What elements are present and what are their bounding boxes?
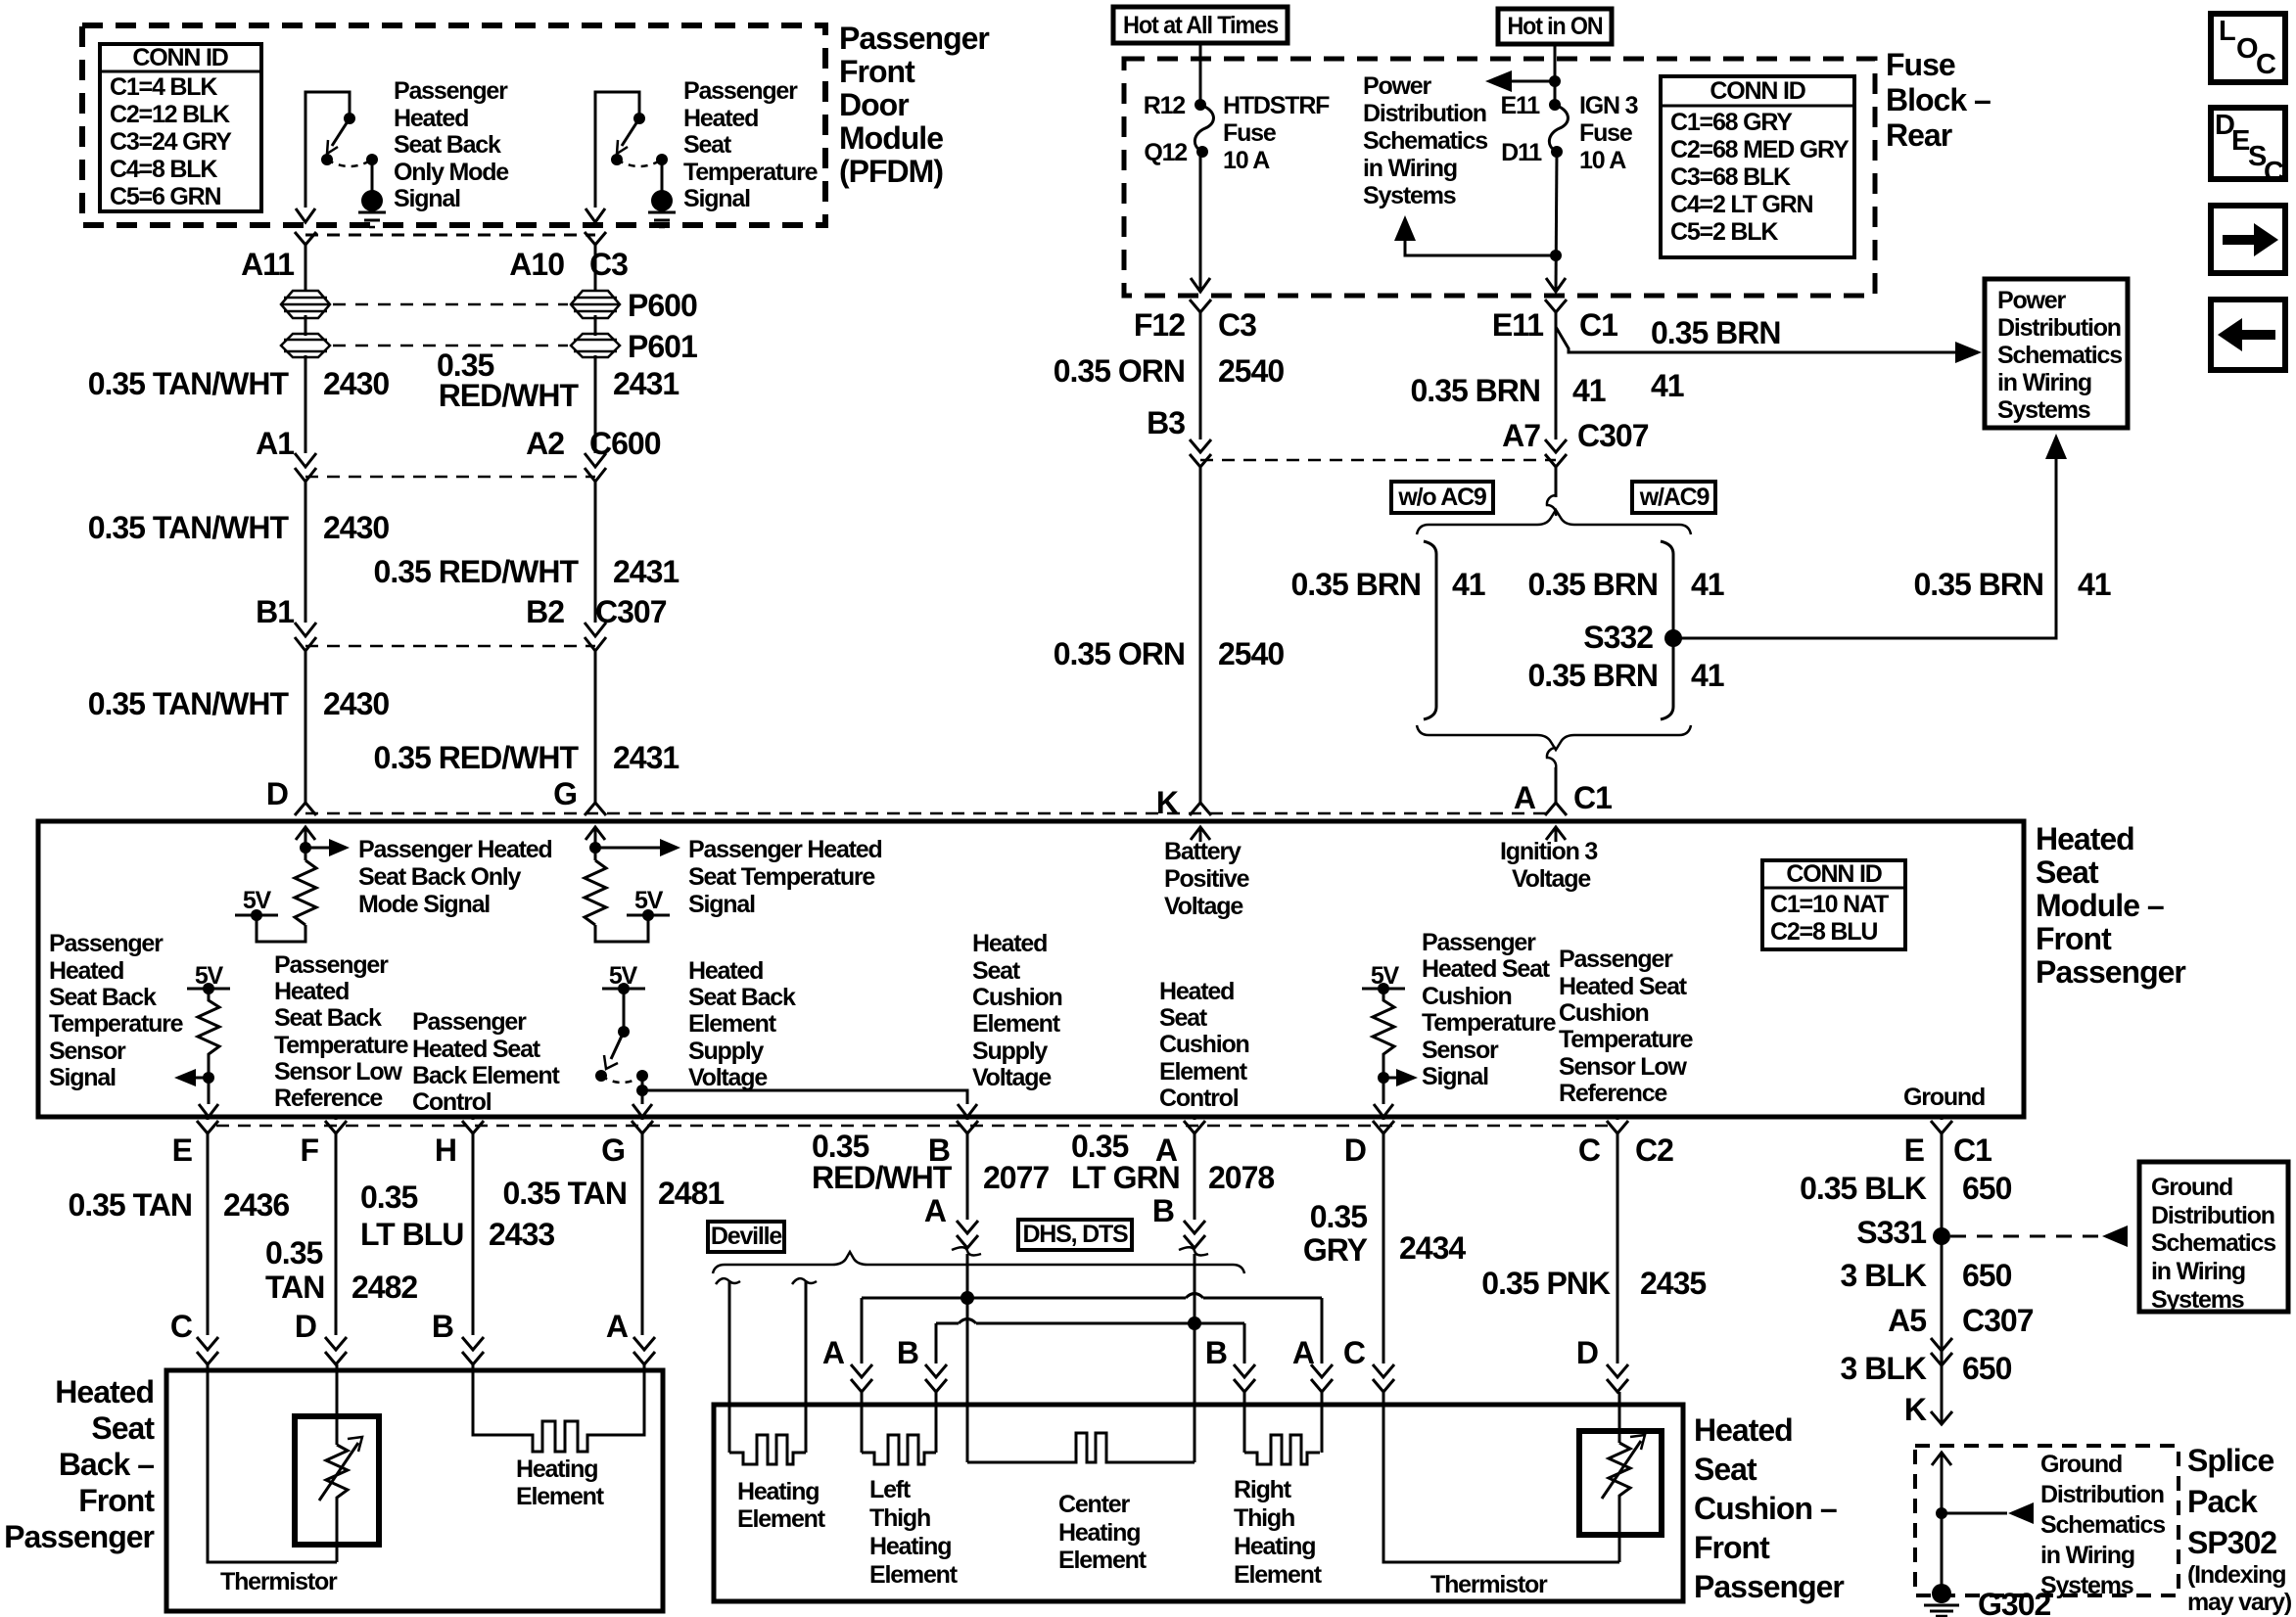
svg-text:IGN 3: IGN 3: [1579, 92, 1638, 119]
svg-text:Reference: Reference: [1559, 1080, 1667, 1107]
cushion sensor low ref text: [1559, 946, 1694, 1107]
svg-text:Heating: Heating: [1234, 1533, 1315, 1560]
Left Thigh Heating Element label: [869, 1476, 959, 1589]
svg-text:0.35: 0.35: [1310, 1199, 1367, 1234]
svg-text:A2: A2: [526, 426, 564, 461]
svg-text:0.35 TAN/WHT: 0.35 TAN/WHT: [88, 686, 290, 721]
seat back A chevrons: [633, 1337, 655, 1364]
Deville tag box: [708, 1222, 784, 1252]
svg-text:R12: R12: [1144, 92, 1186, 119]
svg-text:Temperature: Temperature: [1559, 1026, 1694, 1053]
module exit arrow pin G: [633, 1104, 652, 1117]
svg-text:5V: 5V: [634, 887, 664, 914]
svg-text:A: A: [924, 1193, 947, 1228]
ground ball G (SW2): [648, 190, 676, 227]
wire between P600 and P601: [305, 315, 307, 336]
svg-text:3 BLK: 3 BLK: [1841, 1258, 1927, 1293]
DHS DTS tag box: [1018, 1220, 1132, 1250]
svg-text:Signal: Signal: [683, 185, 750, 212]
seat back B chevrons: [462, 1337, 484, 1364]
splice junction dot: [1936, 1507, 1947, 1519]
cushion thermistor box: [1579, 1431, 1662, 1535]
connector C307 crossing (left wire): [295, 623, 316, 651]
wire 2431 seg2: [594, 482, 597, 623]
cushion sensor return wire (GRY): [1383, 1392, 1619, 1562]
svg-text:Fuse: Fuse: [1579, 119, 1633, 147]
ground G302: [1924, 1584, 1959, 1616]
Deville element wire 1 with curl: [716, 1278, 740, 1453]
svg-text:2482: 2482: [351, 1270, 417, 1305]
svg-text:Cushion: Cushion: [1559, 999, 1649, 1027]
svg-text:Passenger Heated: Passenger Heated: [688, 836, 882, 863]
svg-text:Rear: Rear: [1886, 117, 1952, 153]
svg-text:Heating: Heating: [1058, 1519, 1140, 1547]
svg-text:Heated: Heated: [394, 105, 468, 132]
svg-text:G: G: [601, 1132, 625, 1168]
svg-text:Control: Control: [1159, 1085, 1239, 1112]
svg-text:Systems: Systems: [1363, 182, 1456, 209]
cushion C chevrons (GRY wire): [1373, 1364, 1394, 1392]
svg-text:Front: Front: [78, 1483, 155, 1518]
wire 2431 seg1 lower: [594, 355, 597, 453]
svg-text:41: 41: [1691, 567, 1724, 602]
left thigh A chevrons: [851, 1364, 872, 1392]
pin G stub and Y: [632, 1117, 653, 1335]
w/AC9 tag box: [1632, 482, 1715, 513]
svg-text:0.35 BRN: 0.35 BRN: [1528, 567, 1659, 602]
svg-text:650: 650: [1962, 1258, 2012, 1293]
svg-text:Heated: Heated: [55, 1374, 154, 1409]
sensor low ref text (F): [274, 951, 409, 1112]
junction dot lower branch: [1550, 250, 1562, 261]
svg-text:2430: 2430: [323, 510, 389, 545]
Deville connector chevrons (wire 2077): [957, 1221, 978, 1248]
svg-text:C1=68 GRY: C1=68 GRY: [1670, 109, 1793, 136]
svg-text:Ground: Ground: [1903, 1084, 1985, 1111]
PFDM bottom connector dashed line: [305, 234, 595, 237]
branch wire to up arrow: [1405, 240, 1556, 255]
svg-text:Power: Power: [1997, 287, 2066, 314]
svg-text:0.35 BRN: 0.35 BRN: [1528, 658, 1659, 693]
wire from Hot in ON down: [1554, 44, 1557, 105]
branch line y1326: [862, 1297, 1322, 1300]
svg-text:B2: B2: [526, 594, 564, 629]
connector C600 crossing (left wire): [295, 453, 316, 482]
pin B stub and Y: [957, 1117, 978, 1220]
svg-text:Ground: Ground: [2040, 1451, 2122, 1478]
seat back thermistor box: [295, 1416, 379, 1545]
connector C307 crossing A7: [1545, 439, 1567, 467]
svg-text:Pack: Pack: [2187, 1484, 2258, 1519]
svg-text:Heated: Heated: [1159, 978, 1234, 1005]
supply switch SW3: [595, 983, 648, 1104]
svg-text:Element: Element: [972, 1010, 1061, 1038]
Right Thigh Heating Element label: [1234, 1476, 1323, 1589]
svg-text:Front: Front: [2036, 921, 2112, 956]
svg-text:C: C: [1343, 1335, 1366, 1370]
wire 2430 seg2: [305, 482, 307, 623]
svg-text:2540: 2540: [1218, 636, 1284, 671]
svg-text:Mode Signal: Mode Signal: [358, 891, 490, 918]
Heated Seat Cushion name label: [1694, 1412, 1844, 1604]
svg-text:E11: E11: [1500, 92, 1540, 119]
left thigh B chevrons: [925, 1364, 947, 1392]
svg-text:may vary): may vary): [2187, 1589, 2292, 1616]
svg-text:K: K: [1904, 1392, 1927, 1427]
cushion sensor signal text: [1422, 929, 1557, 1090]
up arrow to Power Distribution text: [1394, 215, 1416, 241]
svg-text:HTDSTRF: HTDSTRF: [1223, 92, 1330, 119]
svg-text:Heating: Heating: [516, 1455, 597, 1483]
svg-text:D: D: [266, 776, 288, 811]
svg-text:41: 41: [1452, 567, 1485, 602]
svg-text:A: A: [1514, 780, 1536, 815]
svg-text:0.35 BLK: 0.35 BLK: [1800, 1171, 1927, 1206]
Heating Element label (seat back): [516, 1455, 605, 1510]
svg-text:Center: Center: [1058, 1491, 1130, 1518]
svg-text:Signal: Signal: [1422, 1063, 1488, 1090]
splice pack entry arrow: [1932, 1453, 1951, 1465]
svg-text:A7: A7: [1502, 418, 1540, 453]
svg-text:Control: Control: [412, 1088, 492, 1116]
svg-text:Seat Back: Seat Back: [688, 984, 796, 1011]
svg-text:Passenger: Passenger: [394, 77, 508, 105]
svg-text:RED/WHT: RED/WHT: [439, 378, 580, 413]
svg-text:C1=10 NAT: C1=10 NAT: [1770, 891, 1889, 918]
svg-text:41: 41: [1572, 373, 1606, 408]
svg-text:B: B: [897, 1335, 918, 1370]
option squiggle below merge: [1547, 748, 1556, 768]
svg-text:Cushion: Cushion: [1159, 1031, 1249, 1058]
svg-text:CONN ID: CONN ID: [1786, 860, 1881, 888]
Splice Pack name label: [2187, 1443, 2292, 1616]
svg-text:Heated: Heated: [2036, 821, 2134, 856]
svg-text:Heated: Heated: [49, 957, 123, 985]
SW2 label: [683, 77, 819, 212]
svg-text:Cushion: Cushion: [1422, 983, 1512, 1010]
svg-text:Cushion –: Cushion –: [1694, 1491, 1837, 1526]
svg-text:P601: P601: [628, 329, 697, 364]
svg-text:D11: D11: [1501, 139, 1542, 166]
svg-text:Right: Right: [1234, 1476, 1292, 1503]
svg-text:Systems: Systems: [1997, 396, 2090, 424]
connector C307 crossing (BLK wire): [1931, 1338, 1952, 1365]
svg-text:0.35: 0.35: [1071, 1129, 1128, 1164]
svg-text:Element: Element: [1058, 1547, 1148, 1574]
module entry arrow pin D: [296, 827, 315, 840]
svg-text:C307: C307: [1962, 1303, 2034, 1338]
Power Distribution Schematics box (right): [1985, 279, 2128, 428]
svg-text:K: K: [1156, 785, 1179, 820]
left sensor text: Passenger Heated Seat Back Temperature Sensor Signal: [49, 930, 184, 1091]
svg-text:A: A: [1292, 1335, 1315, 1370]
pass-through connector P601 (left): [281, 334, 330, 357]
svg-text:D: D: [1576, 1335, 1598, 1370]
svg-text:w/o AC9: w/o AC9: [1397, 484, 1486, 511]
svg-text:0.35: 0.35: [360, 1179, 417, 1215]
svg-text:LT BLU: LT BLU: [360, 1217, 463, 1252]
svg-text:Schematics: Schematics: [1363, 127, 1487, 155]
svg-text:2431: 2431: [613, 366, 679, 401]
Power Distribution Schematics text (fuse block): [1363, 72, 1487, 209]
svg-text:Cushion: Cushion: [972, 984, 1062, 1011]
svg-text:B: B: [1152, 1193, 1174, 1228]
svg-text:G: G: [553, 776, 577, 811]
svg-text:Seat: Seat: [2036, 855, 2099, 890]
svg-text:E: E: [172, 1132, 193, 1168]
svg-text:0.35 RED/WHT: 0.35 RED/WHT: [374, 554, 580, 589]
svg-text:B1: B1: [256, 594, 294, 629]
svg-text:CONN ID: CONN ID: [1710, 77, 1804, 105]
svg-text:w/AC9: w/AC9: [1639, 484, 1710, 511]
wire 2431 seg3: [594, 651, 597, 803]
svg-text:Heated: Heated: [274, 978, 349, 1005]
svg-text:Temperature: Temperature: [274, 1032, 409, 1059]
svg-text:0.35 BRN: 0.35 BRN: [1291, 567, 1422, 602]
svg-text:Supply: Supply: [972, 1038, 1048, 1065]
connector C307 crossing (right wire): [585, 623, 606, 651]
svg-text:C2: C2: [1635, 1132, 1673, 1168]
Deville heating element: [729, 1435, 806, 1464]
svg-text:Fuse: Fuse: [1223, 119, 1277, 147]
svg-text:B: B: [432, 1309, 453, 1344]
svg-text:in Wiring: in Wiring: [1997, 369, 2091, 396]
svg-text:Back –: Back –: [59, 1447, 154, 1482]
svg-text:Thigh: Thigh: [869, 1504, 930, 1532]
pullup resistor R-D network: [235, 827, 350, 942]
svg-text:Systems: Systems: [2040, 1572, 2133, 1599]
pass-through connector P601 (right): [571, 334, 620, 357]
svg-text:C: C: [2264, 157, 2284, 188]
svg-text:C307: C307: [1577, 418, 1649, 453]
pass-through connector P600 (left): [281, 291, 330, 318]
wire 0.35 ORN 2540 seg1: [1199, 312, 1202, 439]
svg-text:Positive: Positive: [1164, 865, 1250, 893]
svg-text:Fuse: Fuse: [1886, 47, 1955, 82]
Heated Seat Back name label: [4, 1374, 155, 1554]
junction S (2078 split): [1188, 1317, 1201, 1330]
svg-text:SP302: SP302: [2187, 1525, 2276, 1560]
variant brace (Deville / DHS,DTS): [713, 1252, 1244, 1273]
C307 dashed connector line (right section): [1200, 459, 1556, 462]
svg-text:A: A: [606, 1309, 629, 1344]
ground ball G (SW1): [358, 190, 386, 227]
signal text G: [688, 836, 882, 918]
svg-text:P600: P600: [628, 288, 697, 323]
svg-text:Passenger: Passenger: [49, 930, 164, 957]
back element control text (H): [412, 1008, 560, 1116]
left arrow box: [2211, 300, 2285, 370]
wire 0.35 BRN 41 below E11: [1555, 312, 1558, 439]
seat back D chevrons: [325, 1337, 347, 1364]
Heated Seat Cushion component box: [714, 1405, 1683, 1601]
svg-text:Ignition 3: Ignition 3: [1500, 838, 1597, 865]
Hot in ON box: [1498, 9, 1612, 44]
right thigh A chevrons: [1311, 1364, 1333, 1392]
svg-text:0.35 TAN: 0.35 TAN: [68, 1187, 192, 1223]
pin C stub and Y: [1607, 1117, 1628, 1363]
SW1 label: [394, 77, 509, 212]
svg-text:(Indexing: (Indexing: [2187, 1561, 2285, 1589]
svg-text:3 BLK: 3 BLK: [1841, 1351, 1927, 1386]
svg-text:H: H: [435, 1132, 456, 1168]
svg-text:F12: F12: [1134, 307, 1185, 343]
C307 dashed connector line: [305, 645, 595, 648]
svg-text:Signal: Signal: [394, 185, 460, 212]
svg-text:Thigh: Thigh: [1234, 1504, 1294, 1532]
svg-text:Passenger: Passenger: [4, 1519, 154, 1554]
branch line y1352: [936, 1322, 1244, 1325]
right arrow box: [2211, 206, 2285, 273]
svg-text:RED/WHT: RED/WHT: [812, 1160, 953, 1195]
svg-text:C2=8 BLU: C2=8 BLU: [1770, 918, 1877, 946]
corner down to left thigh A: [861, 1298, 864, 1363]
svg-text:A10: A10: [509, 247, 564, 282]
svg-text:Only Mode: Only Mode: [394, 159, 509, 186]
svg-text:Seat: Seat: [683, 131, 732, 159]
svg-text:Battery: Battery: [1164, 838, 1242, 865]
seat back heating element: [473, 1364, 644, 1452]
fuse F2 value label: [1579, 92, 1638, 174]
svg-text:0.35 BRN: 0.35 BRN: [1651, 315, 1781, 350]
wire to module pin A: [1555, 767, 1558, 803]
svg-text:Passenger: Passenger: [274, 951, 389, 979]
exit arrow E11: [1546, 278, 1566, 292]
svg-text:Passenger: Passenger: [1694, 1569, 1844, 1604]
P600 dashed link: [333, 303, 568, 306]
svg-text:0.35: 0.35: [812, 1129, 868, 1164]
PFDM dashed module box: [82, 25, 825, 225]
svg-text:Reference: Reference: [274, 1085, 383, 1112]
svg-text:Distribution: Distribution: [2040, 1481, 2164, 1508]
svg-text:C3: C3: [1218, 307, 1256, 343]
w/o AC9 tag box: [1391, 482, 1493, 513]
SW2 output arrow at PFDM edge: [586, 208, 605, 222]
svg-text:C2=68 MED GRY: C2=68 MED GRY: [1670, 136, 1850, 163]
Fuse Block dashed box: [1124, 59, 1875, 296]
svg-text:C1: C1: [1573, 780, 1612, 815]
center heating element: [967, 1433, 1195, 1462]
svg-text:Ground: Ground: [2151, 1174, 2232, 1201]
svg-text:Passenger: Passenger: [1422, 929, 1536, 956]
seat back sensor return wire (C): [208, 1364, 337, 1562]
svg-text:Seat Back: Seat Back: [49, 984, 157, 1011]
signal text D: [358, 836, 552, 918]
svg-text:2540: 2540: [1218, 353, 1284, 389]
svg-text:Signal: Signal: [49, 1064, 116, 1091]
branch kink to power distribution arrow: [1556, 327, 1956, 352]
switch SW1: Passenger Heated Seat Back Only Mode Signal: [305, 92, 378, 208]
svg-text:2481: 2481: [658, 1176, 724, 1211]
cushion sensor resistor R-D2: [1362, 983, 1418, 1104]
svg-text:0.35 BRN: 0.35 BRN: [1411, 373, 1541, 408]
svg-text:Heated Seat: Heated Seat: [1559, 973, 1688, 1000]
exit arrow F12: [1191, 278, 1210, 292]
svg-text:Heated: Heated: [1694, 1412, 1793, 1448]
svg-text:41: 41: [1651, 368, 1684, 403]
svg-text:Sensor Low: Sensor Low: [1559, 1053, 1687, 1081]
module entry arrow pin K: [1191, 827, 1210, 840]
svg-text:0.35 PNK: 0.35 PNK: [1481, 1266, 1611, 1301]
w/o AC9 branch wire segment (bracketed): [1424, 541, 1436, 719]
svg-text:2436: 2436: [223, 1187, 289, 1223]
Fuse Block name label: [1886, 47, 1991, 153]
svg-text:Supply: Supply: [688, 1038, 764, 1065]
svg-text:Temperature: Temperature: [683, 159, 819, 186]
svg-text:Module –: Module –: [2036, 888, 2164, 923]
option squiggle wire 2077: [952, 1247, 981, 1255]
svg-text:0.35 TAN: 0.35 TAN: [502, 1176, 627, 1211]
svg-text:C: C: [2256, 49, 2276, 80]
svg-text:F: F: [300, 1132, 318, 1168]
svg-text:B3: B3: [1147, 405, 1185, 440]
svg-text:Schematics: Schematics: [2040, 1511, 2165, 1539]
module top connector dashed line C1: [305, 812, 1555, 815]
pin D stub and Y: [1373, 1117, 1394, 1363]
svg-text:Distribution: Distribution: [1997, 314, 2121, 342]
svg-text:Element: Element: [1234, 1561, 1323, 1589]
svg-text:S332: S332: [1583, 620, 1653, 655]
svg-text:Passenger Heated: Passenger Heated: [358, 836, 552, 863]
svg-text:G302: G302: [1978, 1587, 2050, 1617]
svg-text:TAN: TAN: [265, 1270, 324, 1305]
connector Y A10: [585, 232, 606, 245]
pin F stub and Y: [325, 1117, 347, 1335]
pin A stub and Y: [1184, 1117, 1205, 1220]
sensor divider resistor R-E: [174, 983, 230, 1104]
svg-text:Heated: Heated: [972, 930, 1047, 957]
svg-text:Voltage: Voltage: [972, 1064, 1052, 1091]
svg-text:Sensor: Sensor: [49, 1038, 126, 1065]
junction S (2077 split): [961, 1291, 974, 1305]
cushion D chevrons (PNK wire): [1607, 1364, 1628, 1392]
svg-text:Hot at All Times: Hot at All Times: [1123, 12, 1278, 39]
svg-text:0.35 ORN: 0.35 ORN: [1054, 636, 1185, 671]
svg-text:Systems: Systems: [2151, 1286, 2244, 1314]
module entry chevron pin A: [1545, 803, 1567, 815]
Heated Seat Module name label: [2036, 821, 2185, 990]
C600 dashed connector line: [305, 476, 595, 479]
module entry chevron pin K: [1190, 803, 1211, 815]
branch wire to pin B: [642, 1090, 967, 1104]
svg-text:Element: Element: [688, 1010, 777, 1038]
svg-text:Seat Back Only: Seat Back Only: [358, 863, 522, 891]
svg-text:Heated Seat: Heated Seat: [412, 1036, 541, 1063]
PFDM module name label: [839, 21, 989, 189]
svg-text:Seat Back: Seat Back: [274, 1004, 382, 1032]
pass-through connector P600 (right): [571, 291, 620, 318]
svg-text:S331: S331: [1856, 1215, 1926, 1250]
svg-text:Seat: Seat: [1694, 1452, 1757, 1487]
Ignition 3 Voltage text: [1500, 838, 1597, 893]
svg-text:Left: Left: [869, 1476, 912, 1503]
svg-text:2077: 2077: [983, 1160, 1049, 1195]
Ground Distribution Schematics box (right): [2139, 1162, 2288, 1314]
corner down to left thigh B: [935, 1323, 938, 1363]
svg-text:Voltage: Voltage: [1164, 893, 1243, 920]
svg-text:C3=68 BLK: C3=68 BLK: [1670, 163, 1791, 191]
LOC box: [2211, 14, 2285, 82]
splice pack bus wire: [1941, 1453, 1944, 1594]
seat back thermistor element: [319, 1364, 362, 1562]
svg-text:2431: 2431: [613, 554, 679, 589]
CONN ID table (PFDM): [100, 44, 261, 211]
svg-text:Block –: Block –: [1886, 82, 1991, 117]
module exit arrow pin D: [1374, 1104, 1393, 1117]
svg-text:B: B: [1205, 1335, 1227, 1370]
option squiggle on wire: [1547, 495, 1556, 516]
svg-text:Front: Front: [1694, 1530, 1770, 1565]
